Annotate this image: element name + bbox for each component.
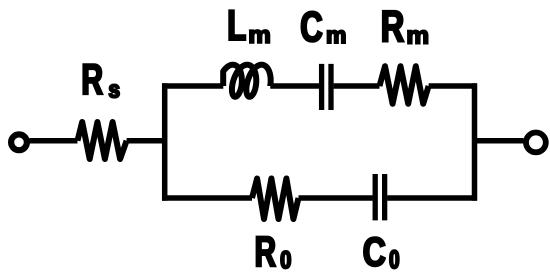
wire Rs to left node	[127, 138, 166, 144]
capacitor Cm plate 2	[328, 64, 333, 110]
wire top-left	[162, 83, 223, 89]
capacitor C0 plate 1	[373, 174, 378, 220]
label R0	[257, 237, 291, 269]
label C0	[364, 237, 399, 268]
wire right lead	[472, 138, 524, 144]
label Cm	[301, 11, 345, 43]
wire C0 to right node	[387, 195, 477, 201]
wire R0 to C0	[299, 195, 373, 201]
label Rs	[83, 64, 119, 97]
wire right vertical node	[472, 83, 478, 201]
inductor Lm	[223, 65, 271, 97]
capacitor C0 plate 2	[382, 174, 387, 220]
wire left lead	[29, 138, 77, 144]
wire Rm to right node	[429, 83, 477, 89]
label Lm	[229, 10, 269, 42]
resistor R0	[252, 179, 299, 220]
resistor Rs	[78, 122, 127, 159]
capacitor Cm plate 1	[319, 64, 324, 110]
label Rm	[383, 11, 428, 44]
wire left vertical node	[162, 83, 168, 201]
right terminal	[526, 133, 546, 153]
wire coil to Cm	[270, 83, 319, 89]
wire bottom-left	[162, 195, 252, 201]
left terminal	[11, 134, 27, 150]
resistor Rm	[380, 66, 429, 104]
wire Cm to Rm	[334, 83, 380, 89]
